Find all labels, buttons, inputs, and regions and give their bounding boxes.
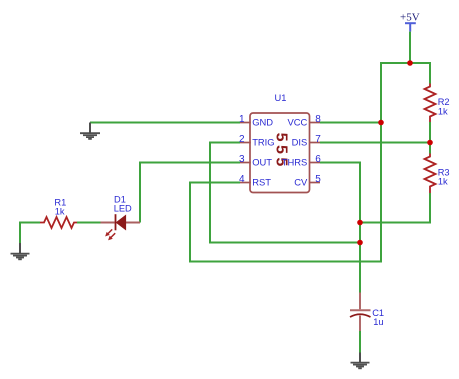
- svg-text:7: 7: [315, 134, 321, 145]
- diode D1 (LED): [101, 195, 141, 240]
- wire OUT pin3 left: [140, 162, 240, 164]
- wire RST pin4 left: [190, 182, 240, 184]
- junction THR/R3: [357, 220, 363, 226]
- wire R2 bottom to R3 top (net DIS): [429, 122, 431, 154]
- resistor R3: [425, 154, 450, 194]
- svg-text:RST: RST: [252, 177, 271, 188]
- wire R1 left down to ground: [19, 222, 21, 244]
- pin 8 VCC: [288, 114, 322, 128]
- pin 7 DIS: [292, 134, 322, 148]
- wire R3 bottom leg to THR vertical: [360, 222, 431, 224]
- svg-text:3: 3: [239, 154, 245, 165]
- capacitor C1: [350, 293, 384, 332]
- junction VCC pin8: [378, 120, 384, 126]
- svg-text:TRIG: TRIG: [252, 137, 274, 148]
- junction DIS node: [427, 140, 433, 146]
- power flag +5V: [400, 11, 420, 31]
- svg-text:OUT: OUT: [252, 157, 272, 168]
- svg-text:LED: LED: [114, 204, 132, 214]
- wire TRIG bottom leg to THR vertical: [209, 242, 360, 244]
- pin 5 CV: [294, 174, 321, 188]
- wire THR vertical down to C1: [359, 162, 361, 293]
- resistor R2: [425, 84, 450, 123]
- svg-text:5: 5: [315, 174, 321, 185]
- svg-text:4: 4: [239, 174, 245, 185]
- wire R3 bottom lead down: [429, 193, 431, 223]
- resistor R1: [40, 198, 77, 228]
- svg-text:1u: 1u: [373, 317, 383, 327]
- pin 6 THRS: [282, 154, 322, 168]
- svg-text:THRS: THRS: [282, 157, 308, 168]
- wire DIS pin7 to R2/R3 node: [320, 142, 430, 144]
- pin 1 GND: [239, 114, 273, 128]
- svg-text:VCC: VCC: [288, 117, 308, 128]
- wire OUT down to LED: [139, 162, 141, 223]
- wire TRIG pin2 left: [210, 142, 240, 144]
- pin 4 RST: [239, 174, 271, 188]
- svg-text:2: 2: [239, 134, 245, 145]
- wire C1 bottom to ground: [359, 331, 361, 353]
- wire VCC pin8 to vertical: [320, 122, 381, 124]
- ground (near U1 pin 1): [80, 123, 100, 139]
- ground (near C1): [351, 353, 370, 369]
- pin 3 OUT: [239, 154, 272, 168]
- svg-text:1k: 1k: [438, 106, 448, 116]
- wire RST bottom to VCC vertical: [189, 261, 382, 263]
- wire R1 right to LED: [77, 222, 101, 224]
- junction THR/TRIG: [357, 240, 363, 246]
- wire TRIG down: [209, 142, 211, 243]
- IC U1 (555 timer): [250, 93, 310, 193]
- svg-text:GND: GND: [252, 117, 273, 128]
- svg-text:1k: 1k: [55, 207, 65, 217]
- wire GND pin1 to ground: [90, 122, 240, 124]
- svg-text:6: 6: [315, 154, 321, 165]
- wire top rail VCC: [381, 62, 430, 64]
- wire RST down: [189, 182, 191, 262]
- svg-text:DIS: DIS: [292, 137, 308, 148]
- wire R2 top lead from rail: [429, 62, 431, 84]
- wire R1 left: [20, 222, 40, 224]
- svg-text:CV: CV: [294, 177, 308, 188]
- junction +5V/rail: [407, 60, 413, 66]
- svg-text:8: 8: [315, 114, 321, 125]
- wire VCC left vertical (net VCC x=381): [380, 62, 382, 262]
- wire THRS pin6 right: [320, 162, 360, 164]
- svg-text:1: 1: [239, 114, 245, 125]
- wire +5V stem: [409, 32, 411, 63]
- ground (near R1): [11, 243, 30, 259]
- pin 2 TRIG: [239, 134, 275, 148]
- svg-text:+5V: +5V: [400, 11, 420, 23]
- svg-text:U1: U1: [275, 93, 287, 103]
- wire LED anode to OUT vertical: [126, 222, 141, 224]
- svg-text:1k: 1k: [438, 177, 448, 187]
